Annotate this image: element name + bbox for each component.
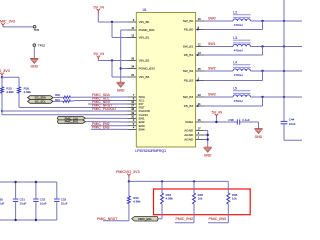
svg-text:GND: GND: [31, 65, 39, 69]
capacitor C53: [54, 182, 68, 220]
svg-text:10uF: 10uF: [61, 202, 68, 206]
ground under TP12: [30, 56, 39, 69]
power net VIO_3V3 label: [0, 69, 10, 77]
svg-text:FB_B0: FB_B0: [184, 28, 194, 32]
inductor L4: [233, 60, 251, 77]
svg-text:GND: GND: [204, 153, 212, 157]
svg-text:PMIC_EN3: PMIC_EN3: [209, 217, 227, 221]
node junction divider rail 1: [161, 180, 163, 182]
node junction bus 0: [283, 20, 285, 22]
test point TP5: [33, 25, 39, 32]
svg-text:SW_B2: SW_B2: [183, 69, 194, 73]
svg-text:L4: L4: [233, 60, 237, 64]
svg-text:PMICVIO_3V3: PMICVIO_3V3: [116, 170, 140, 174]
resistor R30: [55, 93, 70, 98]
wire L5 to output bus: [251, 96, 303, 98]
svg-text:0.1uF: 0.1uF: [242, 118, 250, 122]
svg-text:VIN_B1: VIN_B1: [139, 36, 150, 40]
wire 3V3 to divider rail: [129, 178, 229, 181]
svg-text:18: 18: [131, 107, 134, 111]
node junction bus 1: [283, 45, 285, 47]
inductor L3: [233, 36, 251, 53]
wire bus exit right: [284, 139, 302, 141]
svg-text:470nH: 470nH: [234, 49, 243, 53]
wire C38 to ground: [240, 122, 259, 126]
wire CLK oval to IC: [86, 117, 128, 119]
svg-text:5V_IN: 5V_IN: [94, 52, 105, 56]
svg-text:13: 13: [131, 34, 134, 38]
wire 5V_IN to VANA node: [215, 118, 217, 122]
svg-text:PMIC_PGOOD: PMIC_PGOOD: [92, 107, 116, 111]
svg-text:VIN_B0: VIN_B0: [139, 20, 150, 24]
svg-text:R31: R31: [55, 98, 60, 102]
wire R31 to IC SCL: [71, 100, 128, 103]
svg-text:17: 17: [131, 104, 134, 108]
wire EN3 line: [91, 128, 128, 130]
highlight box: [154, 189, 251, 215]
wire AGND pins to rail: [204, 131, 208, 145]
ground AGND: [204, 145, 213, 158]
wire L4 to output bus: [251, 70, 303, 72]
node junction FB pin 0: [197, 29, 199, 31]
net label PMIC_SDA: [92, 93, 111, 97]
resistor R35: [193, 181, 204, 204]
wire 5V_IN to VIN_B2: [98, 59, 127, 62]
node junction FB pin 3: [197, 105, 199, 107]
net label PMIC_NINT: [92, 100, 112, 104]
wire R36 to PMIC_EN3: [208, 204, 228, 223]
power symbol 5V_IN VANA: [212, 110, 223, 118]
IC U1 LP87524JRNFRQ1 PMIC body: [135, 8, 195, 153]
capacitor C52: [33, 182, 47, 220]
svg-text:C38: C38: [228, 118, 234, 122]
svg-text:LP87524JRNFRQ1: LP87524JRNFRQ1: [135, 149, 166, 153]
node junction FB tap 0: [261, 20, 263, 22]
svg-text:10uF: 10uF: [20, 202, 27, 206]
off-page connector PMIC_EN1: [57, 120, 85, 124]
svg-text:GND: GND: [255, 135, 263, 139]
net label PMIC_SCL: [92, 97, 110, 101]
svg-text:10k: 10k: [198, 197, 203, 201]
wire R30 to IC SDA: [71, 96, 128, 98]
svg-text:4.99k: 4.99k: [6, 90, 14, 94]
resistor R26: [18, 77, 32, 94]
svg-text:PMIC_EN2: PMIC_EN2: [176, 217, 194, 221]
net label PMIC_NRST: [92, 104, 113, 108]
svg-text:L5: L5: [233, 86, 237, 90]
resistor R33: [127, 181, 141, 203]
off-page connector PMIC_CLK: [57, 116, 85, 120]
svg-text:4.99k: 4.99k: [133, 200, 141, 204]
svg-text:10uF: 10uF: [289, 122, 296, 126]
off-page connector I2C_SCL: [28, 100, 54, 104]
wire VANA to C38: [204, 121, 237, 123]
wire INT line: [88, 103, 128, 105]
svg-text:PMIC_EN1: PMIC_EN1: [138, 217, 152, 221]
svg-text:19: 19: [131, 111, 134, 115]
svg-text:VIN_B2: VIN_B2: [139, 59, 150, 63]
net label PMIC_EN2 lower: [176, 217, 194, 221]
wire R26 to NRST line: [18, 93, 20, 107]
wire PGOOD line: [2, 110, 128, 112]
wire R35 to PMIC_EN2: [175, 204, 194, 223]
svg-text:5V_IN: 5V_IN: [94, 5, 105, 9]
resistor R25: [1, 77, 15, 94]
wire SW_B2 to inductor L4: [204, 70, 233, 72]
capacitor C50: [0, 182, 5, 220]
node junction R25 PGOOD: [1, 110, 3, 112]
svg-text:23: 23: [198, 93, 201, 97]
svg-text:MIC_3V3: MIC_3V3: [0, 20, 15, 24]
svg-text:PMIC_NRST: PMIC_NRST: [97, 217, 118, 221]
svg-text:L3: L3: [233, 36, 237, 40]
svg-text:FB_B1: FB_B1: [184, 53, 194, 57]
svg-text:22: 22: [131, 73, 134, 77]
net label SW1: [208, 42, 216, 46]
inductor L2: [233, 10, 251, 27]
svg-text:FB_B2: FB_B2: [184, 79, 194, 83]
power net MIC_3V3 label: [0, 20, 15, 27]
wire SW_B3 to inductor L5: [204, 96, 233, 98]
node junction bus 3: [283, 96, 285, 98]
wire L2 to output bus: [251, 20, 303, 22]
net label SW0: [208, 16, 216, 20]
node junction FB pin 2: [197, 80, 199, 82]
IC U1 right pin stubs, numbers and names: [183, 17, 204, 142]
wire output bus vertical: [283, 0, 285, 140]
ground PGND rail: [117, 80, 126, 93]
svg-text:AGND: AGND: [184, 129, 194, 133]
wire R33 to PMIC_NRST: [103, 204, 129, 221]
wire SDA oval to R30: [53, 96, 63, 98]
node junction C51 top: [14, 181, 16, 183]
ground C38: [254, 126, 263, 139]
svg-text:4: 4: [198, 131, 200, 135]
svg-text:PMIC_EN3: PMIC_EN3: [92, 126, 110, 130]
wire L3 to output bus: [251, 46, 303, 48]
wire NRST line: [19, 107, 128, 109]
net label PMIC_NRST lower: [97, 217, 118, 221]
node junction divider rail 2: [193, 180, 195, 182]
svg-text:470nH: 470nH: [234, 23, 243, 27]
wire branch to VIN_B1: [112, 22, 128, 38]
svg-text:10k: 10k: [232, 197, 237, 201]
wire EN1 oval to IC: [86, 121, 128, 123]
node junction FB pin 1: [197, 54, 199, 56]
wire branch to PGND_B23: [121, 68, 128, 70]
wire cap bank top rail: [0, 181, 57, 183]
node junction 3V3 pullup rail: [1, 76, 3, 78]
wire SW_B0 to inductor L2: [204, 20, 233, 22]
svg-text:PGND_B23: PGND_B23: [139, 67, 155, 71]
svg-text:10: 10: [198, 17, 201, 21]
wire branch to VIN_B3: [112, 61, 128, 78]
node junction FB tap 3: [261, 96, 263, 98]
svg-text:SW1: SW1: [208, 42, 216, 46]
svg-text:O_3V3: O_3V3: [0, 69, 10, 73]
svg-text:SW0: SW0: [208, 16, 216, 20]
svg-text:GND: GND: [117, 89, 125, 93]
svg-text:TP5: TP5: [34, 28, 40, 32]
svg-text:5V_IN: 5V_IN: [212, 110, 223, 114]
svg-text:U1: U1: [143, 8, 147, 12]
svg-text:2: 2: [198, 136, 200, 140]
wire SCL oval to R31: [53, 100, 63, 102]
net label PMIC_EN2 upper: [92, 122, 110, 126]
net label SW3: [208, 92, 216, 96]
svg-text:SW2: SW2: [208, 66, 216, 70]
resistor R34: [161, 181, 174, 204]
svg-text:25: 25: [198, 67, 201, 71]
wire FB_B3 return: [204, 97, 263, 106]
svg-text:12: 12: [198, 43, 201, 47]
svg-text:470nH: 470nH: [234, 73, 243, 77]
svg-text:PMIC_EN1: PMIC_EN1: [65, 120, 79, 124]
node junction bus 2: [283, 70, 285, 72]
capacitor C51: [13, 182, 27, 220]
svg-text:EN4: EN4: [139, 128, 145, 132]
wire R25 to PGOOD line: [1, 93, 3, 115]
resistor R36: [227, 181, 238, 204]
svg-text:17: 17: [198, 127, 201, 131]
svg-text:L2: L2: [233, 10, 237, 14]
wire pullup rail: [2, 76, 19, 78]
node junction C52 top: [35, 181, 37, 183]
svg-text:20: 20: [131, 115, 134, 119]
node junction VIN_B0 branch: [111, 21, 113, 23]
node junction divider rail 0: [128, 180, 130, 182]
node junction PGND_B23: [120, 67, 122, 69]
wire 3V3 to TP5: [3, 26, 33, 28]
svg-text:24: 24: [131, 65, 134, 69]
wire FB_B1 return: [204, 47, 263, 56]
svg-text:470nH: 470nH: [234, 99, 243, 103]
node junction C51 bottom: [14, 219, 16, 221]
node junction C52 bottom: [35, 219, 37, 221]
svg-text:R30: R30: [55, 93, 60, 97]
wire R34 to EN1 oval: [158, 204, 162, 219]
svg-text:TP12: TP12: [38, 43, 46, 47]
wire FB_B2 return: [204, 71, 263, 81]
wire cap bank bottom rail: [0, 219, 57, 221]
node junction AGND 1: [207, 134, 209, 136]
power symbol 5V_IN lower: [94, 52, 105, 60]
capacitor C38: [228, 118, 250, 125]
off-page connector I2C_SDA: [28, 96, 54, 100]
power symbol 5V_IN upper: [94, 5, 105, 13]
off-page connector PMIC_EN1 lower: [132, 217, 159, 222]
node junction AGND 2: [207, 138, 209, 140]
svg-text:VANA: VANA: [185, 120, 194, 124]
capacitor C44: [281, 118, 296, 126]
svg-text:10uF: 10uF: [0, 202, 5, 206]
net label PMIC_EN3 upper: [92, 126, 110, 130]
wire 5V_IN to VIN_B0: [98, 13, 127, 22]
resistor R31: [55, 98, 70, 102]
inductor L5: [233, 86, 251, 103]
svg-text:SW_B0: SW_B0: [183, 19, 194, 23]
svg-text:26: 26: [131, 57, 134, 61]
svg-text:VIN_B3: VIN_B3: [139, 75, 150, 79]
svg-text:10uF: 10uF: [40, 202, 47, 206]
wire TP12 to ground: [33, 47, 35, 56]
svg-text:PGND_B01: PGND_B01: [139, 28, 155, 32]
svg-text:FB_B3: FB_B3: [184, 104, 194, 108]
node junction VIN_B2 branch: [111, 59, 113, 61]
wire CLKIN line: [2, 114, 128, 116]
test point TP12: [33, 43, 45, 47]
svg-text:AGND: AGND: [184, 133, 194, 137]
svg-text:SW3: SW3: [208, 92, 216, 96]
svg-text:SW_B1: SW_B1: [183, 45, 194, 49]
node junction VANA: [215, 121, 217, 123]
svg-text:4.99k: 4.99k: [24, 90, 32, 94]
net label PMIC_EN3 lower: [209, 217, 227, 221]
svg-text:AGND: AGND: [184, 138, 194, 142]
wire FB_B0 return: [204, 21, 263, 30]
wire PGND_B01 to ground rail: [121, 30, 128, 80]
net label PMIC_PGOOD: [92, 107, 116, 111]
net label SW2: [208, 66, 216, 70]
svg-text:15: 15: [131, 100, 134, 104]
svg-text:4.99k: 4.99k: [166, 197, 174, 201]
power net PMICVIO_3V3 label: [116, 170, 140, 178]
svg-text:16: 16: [198, 118, 201, 122]
svg-text:I2C_SCL: I2C_SCL: [35, 100, 46, 104]
wire EN2 line: [91, 125, 128, 127]
node junction FB tap 2: [261, 70, 263, 72]
wire SW_B1 to inductor L3: [204, 46, 233, 48]
svg-text:SW_B3: SW_B3: [183, 95, 194, 99]
node junction FB tap 1: [261, 45, 263, 47]
IC U1 left pin stubs, numbers and names: [128, 18, 156, 131]
